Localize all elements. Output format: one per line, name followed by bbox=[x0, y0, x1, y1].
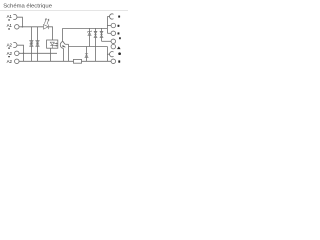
svg-text:A1: A1 bbox=[7, 14, 13, 19]
svg-text:A2: A2 bbox=[7, 42, 13, 47]
svg-text:Schéma électrique: Schéma électrique bbox=[3, 3, 53, 9]
svg-text:A1: A1 bbox=[7, 23, 13, 28]
svg-text:A2: A2 bbox=[7, 51, 13, 56]
svg-text:A2: A2 bbox=[7, 59, 13, 64]
